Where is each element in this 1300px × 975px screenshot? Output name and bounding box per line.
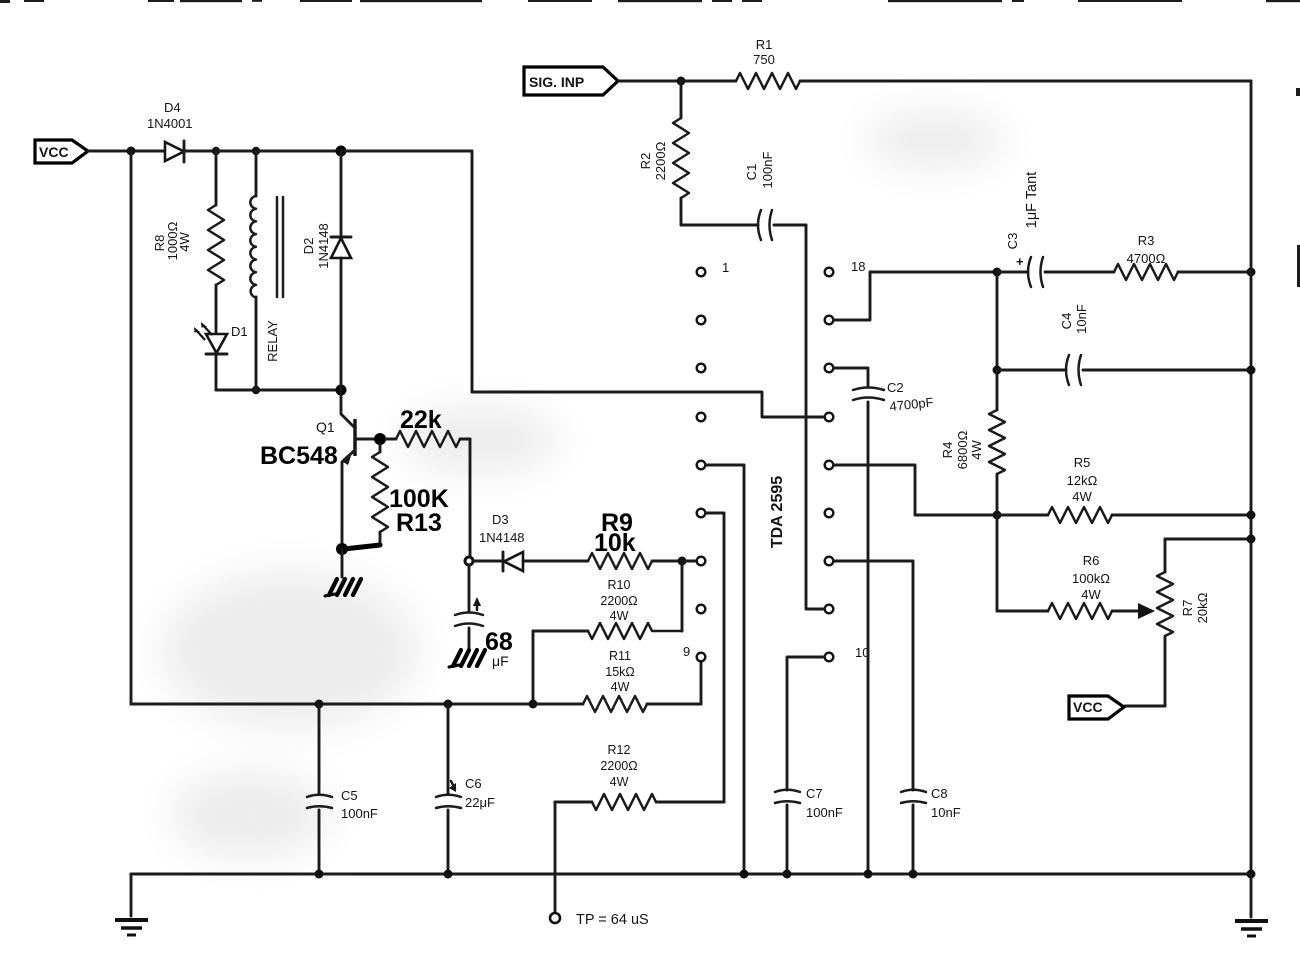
wire pin 16 to C2: [834, 368, 868, 387]
svg-text:R7: R7: [1180, 600, 1195, 617]
wire relay sub-circuit bottom rail: [216, 389, 341, 392]
svg-text:R11: R11: [609, 649, 631, 663]
potentiometer R7 20k (vertical): [1157, 539, 1210, 706]
svg-text:D2: D2: [301, 238, 316, 255]
svg-text:C4: C4: [1059, 313, 1074, 330]
svg-text:10k: 10k: [594, 529, 636, 557]
node at x131 (VCC rail tap): [127, 147, 136, 156]
pin 7: [697, 557, 706, 566]
transistor Q1 BC548: [260, 390, 378, 549]
svg-text:R13: R13: [396, 509, 442, 537]
svg-text:R4: R4: [940, 442, 955, 459]
svg-text:1μF Tant: 1μF Tant: [1024, 172, 1040, 228]
svg-text:D3: D3: [492, 512, 509, 527]
svg-text:Q1: Q1: [316, 419, 335, 435]
svg-text:22k: 22k: [400, 406, 442, 434]
wire y392 toward chip pin 15 with jog: [472, 392, 824, 417]
resistor R9 10k (horizontal): [588, 509, 677, 569]
wire R2 to C1: [681, 224, 758, 227]
wire R5 node down to R6 row: [996, 515, 999, 611]
wire C3 node down to C4 node: [996, 272, 999, 370]
pin 4: [697, 413, 706, 422]
node R4 bottom / R5 row: [993, 511, 1002, 520]
wire corner x472 down to y392: [471, 151, 474, 392]
node relay bottom: [252, 386, 260, 394]
svg-text:BC548: BC548: [260, 442, 338, 470]
wire node to D3: [473, 560, 501, 563]
pin 13: [825, 509, 834, 518]
pin 17: [825, 316, 834, 325]
svg-text:4W: 4W: [969, 440, 984, 460]
ground (right, 3-bar): [1235, 921, 1268, 936]
node Q1 base (bold dot): [374, 433, 386, 445]
node R10 tap: [529, 700, 538, 709]
svg-text:4W: 4W: [177, 232, 192, 252]
LED D1: [194, 322, 248, 354]
node R1/R2: [677, 77, 686, 86]
svg-text:100kΩ: 100kΩ: [1072, 571, 1110, 586]
svg-text:18: 18: [851, 259, 865, 274]
svg-text:D4: D4: [164, 100, 181, 115]
svg-text:2200Ω: 2200Ω: [600, 759, 637, 773]
resistor R11 15k 4W (in rail): [583, 649, 701, 712]
lower VCC rail y704: [131, 703, 583, 706]
svg-text:1N4001: 1N4001: [147, 116, 193, 131]
node D3/68uF junction (ring): [465, 557, 473, 565]
svg-text:68: 68: [485, 628, 513, 656]
test point TP: [550, 912, 649, 928]
svg-text:100nF: 100nF: [806, 805, 843, 820]
node C8 at ground rail: [909, 870, 918, 879]
wire node to pin 7: [682, 560, 696, 563]
svg-text:1N4148: 1N4148: [316, 223, 331, 269]
scan noise strip along top edge: [0, 0, 1300, 287]
node D2 top (bold annotation dot): [336, 146, 347, 157]
wire pin 14 jog to R5 row: [834, 465, 997, 515]
node C5 top: [315, 700, 324, 709]
resistor R6 100k 4W (horizontal, with wiper arrow): [997, 553, 1155, 619]
svg-text:TP = 64 uS: TP = 64 uS: [576, 912, 649, 928]
wire R12 left down to test point: [554, 802, 557, 913]
right rail vertical: [1250, 81, 1253, 874]
wire rail up to pin 9: [700, 663, 703, 704]
capacitor C1 100nF: [744, 152, 806, 240]
svg-text:C6: C6: [465, 776, 482, 791]
wire pin 6 to R12: [706, 513, 724, 802]
svg-text:RELAY: RELAY: [265, 320, 280, 362]
wire R7 bottom to VCC box: [1125, 705, 1165, 708]
svg-text:4W: 4W: [1081, 587, 1101, 602]
relay coil: [250, 151, 283, 390]
pin 2: [697, 316, 706, 325]
svg-text:+: +: [1016, 254, 1024, 269]
pin 11: [825, 605, 834, 614]
svg-text:C5: C5: [341, 788, 358, 803]
pin 9: [697, 653, 706, 662]
node ground rail right corner: [1247, 870, 1256, 879]
node pin5 line at ground rail: [740, 870, 749, 879]
node R8 top: [212, 147, 220, 155]
svg-text:TDA 2595: TDA 2595: [769, 476, 786, 548]
node C2 at ground rail: [864, 870, 873, 879]
resistor R5 12k 4W (horizontal): [997, 455, 1251, 523]
svg-text:R3: R3: [1138, 233, 1155, 248]
node relay top: [252, 147, 260, 155]
svg-text:100nF: 100nF: [760, 152, 775, 189]
resistor R4 6800 ohm 4W (vertical): [940, 370, 1005, 515]
svg-text:μF: μF: [492, 653, 509, 669]
ground (Q1 emitter, hatched): [325, 579, 361, 596]
svg-text:1N4148: 1N4148: [479, 530, 525, 545]
node C5 bottom: [315, 870, 324, 879]
node Q1 emitter (bold dot): [336, 543, 348, 555]
pin 5: [697, 461, 706, 470]
wire right rail corner down: [1250, 874, 1253, 917]
resistor R13 100K (vertical): [372, 445, 449, 545]
resistor R10 2200 ohm 4W (horizontal): [533, 578, 682, 639]
wire pin 17 up and to C3 node: [834, 272, 997, 320]
wire LED to bottom rail: [215, 354, 218, 390]
svg-text:C8: C8: [931, 786, 948, 801]
resistor R1 750 (horizontal): [681, 37, 800, 89]
pin 10: [825, 653, 834, 662]
svg-text:4700Ω: 4700Ω: [1127, 251, 1166, 266]
diode D2 1N4148 (vertical, cathode up): [301, 151, 351, 390]
pin 3: [697, 364, 706, 373]
ground (68uF, hatched): [449, 650, 485, 667]
svg-text:R6: R6: [1083, 553, 1100, 568]
svg-text:VCC: VCC: [1073, 699, 1103, 715]
pin 12: [825, 557, 834, 566]
resistor R3 4700 ohm (horizontal): [1114, 233, 1251, 280]
svg-text:4W: 4W: [610, 775, 629, 789]
node R5 at right rail: [1247, 511, 1256, 520]
wire ground rail left corner down: [130, 874, 133, 916]
pin 16: [825, 364, 834, 373]
resistor R2 2200 ohm (vertical): [638, 81, 689, 225]
node R9 right / pin 7: [678, 557, 687, 566]
wire SIG INP to R2 node: [618, 80, 681, 83]
node C4 branch: [993, 366, 1002, 375]
ground (left, 3-bar): [115, 920, 148, 935]
svg-text:C2: C2: [887, 380, 904, 395]
wire C1 down to pin 11: [806, 225, 824, 609]
svg-text:1: 1: [722, 260, 729, 275]
svg-text:750: 750: [753, 52, 775, 67]
svg-text:C1: C1: [744, 164, 759, 181]
node C6 bottom: [444, 870, 453, 879]
wire to relay top node: [216, 150, 256, 153]
node C7 at ground rail: [783, 870, 792, 879]
diode D3 1N4148 (horizontal, cathode left): [479, 512, 588, 571]
svg-text:4W: 4W: [611, 680, 630, 694]
svg-text:9: 9: [683, 644, 690, 659]
resistor R8 1000 ohm 4W (vertical): [152, 151, 224, 333]
pin 14: [825, 461, 834, 470]
pin 8: [697, 605, 706, 614]
svg-text:D1: D1: [231, 324, 248, 339]
capacitor C4 10nF: [997, 304, 1251, 385]
VCC input label box (left): [35, 140, 88, 163]
svg-text:20kΩ: 20kΩ: [1195, 592, 1210, 623]
wire R1 to right rail: [800, 80, 1251, 83]
wire emitter to ground: [341, 549, 344, 577]
svg-text:R5: R5: [1074, 455, 1091, 470]
wire R7 top to right rail: [1165, 538, 1251, 541]
capacitor C6 22uF: [436, 704, 495, 874]
svg-text:SIG. INP: SIG. INP: [529, 74, 584, 90]
svg-text:C3: C3: [1005, 233, 1020, 250]
svg-text:2200Ω: 2200Ω: [600, 594, 637, 608]
wire 22k right end down to D3 node: [469, 439, 472, 556]
svg-text:R1: R1: [756, 37, 773, 52]
IC U1 TDA 2595 pin field: [683, 259, 869, 661]
svg-text:15kΩ: 15kΩ: [605, 665, 635, 679]
svg-text:R12: R12: [608, 743, 631, 757]
resistor 22k (base resistor, horizontal): [386, 406, 470, 447]
diode D4 1N4001: [147, 100, 193, 162]
node R7 at right rail: [1247, 535, 1256, 544]
SIG INP label box: [524, 67, 618, 95]
svg-text:VCC: VCC: [39, 144, 69, 160]
svg-text:4W: 4W: [610, 609, 629, 623]
capacitor C3 1uF Tant: [997, 172, 1114, 287]
wire VCC rail vertical left x131 down to lower VCC rail: [130, 151, 133, 704]
node C3 branch: [993, 268, 1002, 277]
capacitor C5 100nF: [307, 704, 378, 874]
node C6 top: [444, 700, 453, 709]
capacitor C7 100nF: [775, 786, 843, 874]
capacitor C2 4700pF: [853, 380, 934, 874]
svg-text:4W: 4W: [1072, 489, 1092, 504]
node C4 at right rail: [1247, 366, 1256, 375]
svg-text:R10: R10: [608, 578, 631, 592]
pin 15: [825, 413, 834, 422]
pin 18: [825, 268, 834, 277]
svg-text:10nF: 10nF: [931, 805, 961, 820]
wire to D2 top node: [256, 150, 341, 153]
wire R10 left end down to lower VCC rail: [532, 631, 535, 704]
node D2 bottom (bold annotation dot): [336, 385, 347, 396]
svg-text:6800Ω: 6800Ω: [955, 430, 970, 469]
svg-text:100nF: 100nF: [341, 806, 378, 821]
svg-text:12kΩ: 12kΩ: [1067, 473, 1098, 488]
wire pin 5 to ground rail: [706, 465, 744, 874]
wire D4 to R8 top node: [184, 150, 216, 153]
wire pin 10 to C7: [787, 657, 824, 790]
resistor R12 2200 ohm 4W (horizontal): [555, 743, 724, 810]
svg-text:22μF: 22μF: [465, 795, 495, 810]
node R3 at right rail: [1247, 268, 1256, 277]
thick annotation wire R13 bottom to emitter: [344, 545, 380, 549]
VCC label box (right): [1069, 696, 1124, 719]
wire pin 12 to C8: [834, 561, 913, 790]
ground rail y874: [131, 873, 1252, 876]
svg-text:R2: R2: [638, 153, 653, 170]
svg-text:C7: C7: [806, 786, 823, 801]
svg-text:10nF: 10nF: [1074, 304, 1089, 334]
wire VCC box to D4: [88, 150, 165, 153]
pin 6: [697, 509, 706, 518]
pin 1: [697, 268, 706, 277]
wire top rail to right corner x472: [341, 150, 472, 153]
svg-text:2200Ω: 2200Ω: [653, 141, 668, 180]
capacitor C8 10nF: [901, 786, 961, 874]
wire node down to R10: [681, 561, 684, 631]
capacitor 68uF: [455, 565, 513, 669]
